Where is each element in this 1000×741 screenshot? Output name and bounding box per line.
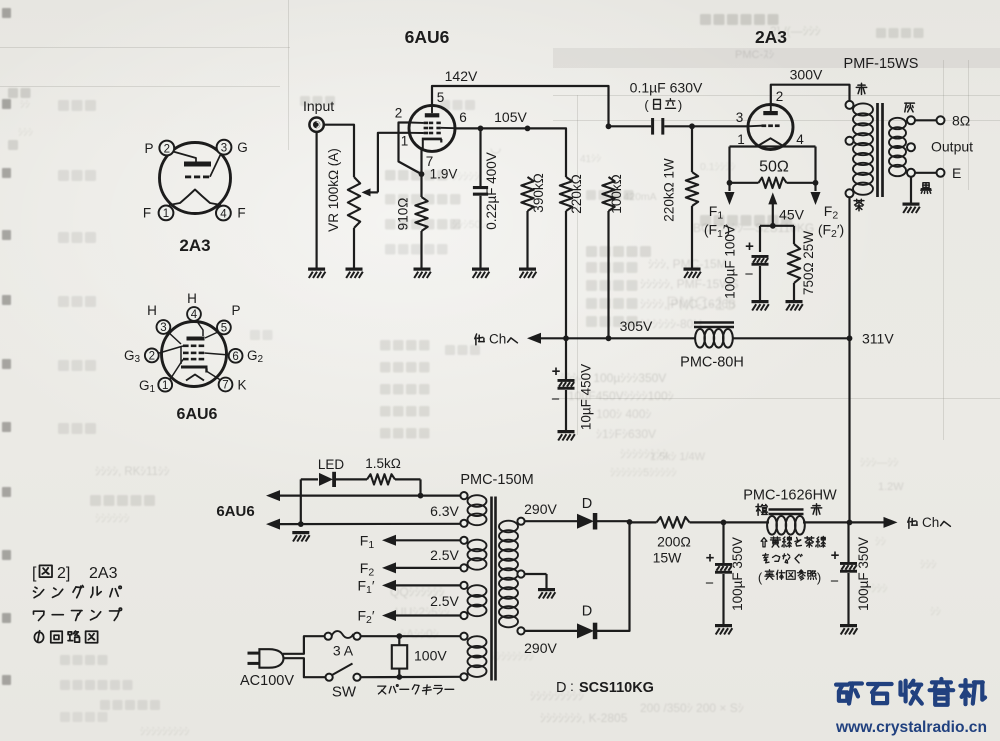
wire diode top to B+ (595, 520, 630, 522)
svg-text:+: + (552, 363, 561, 380)
svg-text:0.22µF 400V: 0.22µF 400V (484, 152, 499, 230)
label F1 (F1') (704, 203, 730, 240)
svg-text:6AU6: 6AU6 (216, 503, 254, 520)
svg-text:VR 100kΩ (A): VR 100kΩ (A) (326, 148, 341, 232)
svg-text:(: ( (644, 98, 649, 113)
svg-text:LED: LED (318, 457, 345, 472)
svg-text:100µF 100V: 100µF 100V (723, 225, 738, 299)
svg-text:D: D (582, 496, 592, 512)
wire diode bottom up to B+ (595, 522, 630, 631)
label 他Chへ (to other ch) (475, 332, 518, 347)
svg-text:3: 3 (160, 322, 166, 334)
svg-text:100µF 350V: 100µF 350V (856, 537, 871, 611)
label gray (hai) (905, 103, 915, 112)
label black (kuro) (921, 183, 931, 194)
wire coupling line right to 2A3 grid (664, 125, 748, 127)
primary terminal bottom (brown) (846, 189, 854, 197)
wire input to VR top (324, 125, 354, 177)
diode D (bottom) SCS110KG (577, 623, 597, 640)
svg-text::: : (570, 678, 574, 694)
svg-text:6: 6 (459, 110, 467, 125)
svg-text:[: [ (32, 565, 37, 582)
svg-text:50Ω: 50Ω (759, 159, 789, 176)
secondary terminal bottom (black) (907, 169, 915, 177)
wire input jack to ground (316, 132, 318, 268)
svg-text:2]: 2] (57, 565, 70, 582)
wire B+ to 200 ohm (630, 521, 657, 523)
wire E tap (915, 172, 937, 174)
svg-text:910Ω: 910Ω (396, 198, 411, 231)
wire secondary to ground (910, 177, 912, 203)
6AU6 socket base diagram (124, 291, 264, 395)
arrow to F2 (811, 183, 821, 205)
svg-text:SW: SW (332, 684, 357, 701)
label 他Chへ (B+ out) (908, 515, 951, 530)
svg-text:305V: 305V (620, 318, 653, 334)
svg-text:(F2′): (F2′) (818, 222, 844, 241)
svg-text:8Ω: 8Ω (952, 112, 970, 128)
svg-text:1: 1 (162, 380, 168, 392)
wire plug cords (283, 636, 326, 677)
svg-text:2.5V: 2.5V (430, 593, 459, 609)
svg-text:F1: F1 (360, 533, 375, 552)
wire 100k down to 305V line (607, 211, 609, 338)
svg-text:G: G (237, 140, 248, 155)
wire LED branch (301, 479, 421, 524)
svg-text:290V: 290V (524, 501, 557, 517)
tube V2 2A3 (power triode) (748, 105, 793, 150)
wire 6AU6 plate to 142V line (432, 86, 609, 126)
svg-text:−: − (551, 391, 560, 408)
capacitor 100uF 350V (second) (830, 522, 857, 624)
capacitor 100uF 100V (cathode bypass) (745, 238, 769, 300)
svg-text:1.9V: 1.9V (430, 167, 458, 182)
svg-text:D: D (582, 604, 592, 620)
secondary terminal top (gray) (907, 116, 915, 124)
svg-text:4: 4 (191, 309, 198, 321)
resistor 200 ohm 15W (657, 517, 690, 528)
svg-text:290V: 290V (524, 640, 557, 656)
svg-text:Output: Output (931, 138, 973, 154)
ground (speaker return) (903, 203, 920, 214)
node: hum pot left (727, 180, 733, 186)
node: cathode junction (419, 171, 425, 177)
wire filament left drop (728, 147, 730, 183)
input jack J1 (309, 118, 323, 132)
wire filament right drop (814, 147, 816, 183)
wire 290V top to diode (525, 520, 578, 522)
svg-text:15W: 15W (653, 550, 683, 566)
wire 6AU6 g3 pin2 to cathode (399, 123, 422, 175)
wire F2' (382, 610, 461, 621)
svg-text:AC100V: AC100V (240, 673, 294, 689)
svg-text:+: + (706, 550, 715, 567)
resistor 1.5k (LED dropper) (367, 474, 395, 484)
node: grid/220k1W junction (689, 123, 695, 129)
wire 6AU6 cathode down (420, 149, 422, 198)
wire switch to transformer (361, 676, 461, 679)
svg-text:0.1µF 630V: 0.1µF 630V (630, 80, 703, 96)
ground (10uF) (558, 430, 575, 441)
primary terminal top (red) (846, 101, 854, 109)
svg-text:142V: 142V (445, 68, 478, 84)
node: hum pot right (813, 180, 819, 186)
label red (aka) choke (811, 504, 821, 515)
transformer core (878, 103, 883, 197)
ground (750 ohm) (786, 300, 803, 311)
svg-text:F: F (143, 206, 151, 221)
svg-text:www.crystalradio.cn: www.crystalradio.cn (835, 719, 987, 736)
svg-text:E: E (952, 165, 961, 181)
svg-text:PMC-1626HW: PMC-1626HW (743, 488, 837, 504)
svg-text:2A3: 2A3 (179, 236, 210, 255)
ground (input jack) (308, 268, 325, 279)
resistor Rk 910 ohm (415, 197, 427, 231)
ground (220k 1W) (684, 268, 701, 279)
primary terminal mid (846, 137, 854, 145)
label F2 (F2') (818, 203, 844, 240)
node: first filter cap (721, 520, 727, 526)
svg-text:4: 4 (796, 132, 804, 147)
choke PMC-1626HW (767, 510, 805, 535)
wire 2A3 plate to 300V / OPT primary (771, 85, 850, 105)
LED indicator (319, 472, 336, 487)
svg-text:F: F (237, 206, 245, 221)
svg-text:D: D (556, 680, 566, 696)
svg-text:): ) (817, 570, 821, 585)
svg-text:K: K (237, 377, 246, 392)
winding 6.3V (460, 492, 486, 527)
svg-text:Input: Input (303, 98, 334, 114)
svg-text:2.5V: 2.5V (430, 547, 459, 563)
wire coupling line left (609, 125, 652, 127)
svg-text:Ch: Ch (489, 332, 506, 347)
capacitor 10uF 450V (551, 363, 574, 430)
svg-text:2: 2 (149, 351, 155, 363)
note: connect yellow and brown wires (758, 537, 825, 586)
potentiometer VR 100k (A) (348, 177, 360, 228)
svg-text:2: 2 (776, 89, 784, 104)
spark killer (surge absorber) (392, 636, 407, 677)
wire VR bottom to ground (353, 228, 355, 268)
wire 0.22uF to ground (479, 196, 481, 268)
svg-text:6.3V: 6.3V (430, 503, 459, 519)
node: 45V junction (770, 223, 776, 229)
resistor 390k (521, 177, 533, 211)
wire Rk to ground (420, 231, 422, 268)
svg-text:2: 2 (164, 143, 170, 155)
wire 220k down to 305V line (565, 211, 567, 338)
svg-text:+: + (745, 238, 754, 255)
wire to 0.22uF (479, 128, 481, 186)
node: 100k junction (606, 335, 612, 341)
2A3 socket base diagram (143, 140, 248, 221)
svg-text:3: 3 (221, 143, 227, 155)
svg-text:F1′: F1′ (357, 578, 374, 597)
node: screen/cap junction (478, 125, 484, 131)
choke PMC-80H (694, 323, 734, 348)
svg-text:F2: F2 (824, 203, 839, 222)
svg-text:): ) (678, 98, 682, 113)
svg-text:1: 1 (401, 134, 409, 149)
svg-text:P: P (144, 141, 153, 156)
svg-text:750Ω 25W: 750Ω 25W (801, 231, 816, 295)
ground (cathode) (414, 268, 431, 279)
svg-text:PMC-80H: PMC-80H (680, 355, 744, 371)
arrow heater bottom (266, 519, 461, 530)
svg-text:220kΩ 1W: 220kΩ 1W (662, 158, 677, 222)
svg-text:1: 1 (737, 132, 745, 147)
diode D (top) SCS110KG (577, 513, 597, 530)
wire F1 (382, 535, 461, 546)
wire fuse to transformer (361, 635, 461, 637)
label 200Ω 15W (653, 534, 691, 566)
wire 8 ohm tap (915, 119, 937, 121)
svg-text:1.5kΩ: 1.5kΩ (365, 456, 401, 471)
svg-text:3 A: 3 A (333, 643, 354, 659)
svg-text:3: 3 (736, 110, 744, 125)
capacitor 100uF 350V (first) (705, 522, 732, 624)
transformer T2 PMF-15WS primary (853, 103, 873, 194)
winding secondary 290V-0-290V (499, 518, 525, 635)
svg-text:G3: G3 (124, 348, 141, 365)
resistor 220k (560, 177, 572, 211)
svg-text:F2: F2 (360, 560, 375, 579)
label (Hitachi) (644, 98, 682, 113)
svg-text:100V: 100V (414, 648, 447, 664)
label red (aka) (856, 83, 866, 94)
terminal 8 ohm (937, 116, 945, 124)
wire choke to 311V node (733, 337, 850, 339)
tube V1 6AU6 (triode-connected pentode) (409, 105, 455, 151)
arrow to F1 (725, 183, 735, 205)
ground (first filter cap) (715, 624, 732, 635)
svg-text:H: H (187, 291, 197, 306)
node: junction 142V/coupling (606, 123, 612, 129)
fuse 3A (325, 631, 361, 640)
svg-text:−: − (830, 573, 839, 590)
wire 200 ohm to choke (690, 521, 770, 523)
label orange (dai-dai) (756, 504, 768, 515)
winding 2.5V (b) (460, 582, 486, 619)
arrow to other channel (B+) (884, 517, 898, 528)
figure caption [Fig2] 2A3 single power amp circuit (32, 565, 122, 643)
secondary terminal mid (907, 143, 915, 151)
svg-text:100µF 350V: 100µF 350V (730, 537, 745, 611)
hum balance pot 50 ohm (730, 178, 816, 188)
wire 305V node to 10uF (565, 338, 567, 379)
svg-text:H: H (147, 303, 157, 318)
svg-text:5: 5 (437, 90, 445, 105)
transformer core (PMC-150M) (492, 497, 496, 681)
svg-text:SCS110KG: SCS110KG (579, 680, 654, 696)
terminal E (937, 169, 945, 177)
wire 290V bottom to diode (525, 630, 578, 632)
winding 2.5V (a) (460, 537, 486, 572)
switch SW (326, 664, 361, 681)
node: spark killer top (396, 633, 402, 639)
node: 220k/10uF junction (563, 335, 569, 341)
transformer T2 secondary (889, 118, 906, 176)
svg-text:105V: 105V (494, 109, 527, 125)
node: 6.3V top junction (418, 493, 424, 499)
wire choke to 311V drop (803, 521, 884, 523)
node: spark killer bottom (396, 674, 402, 680)
label D : SCS110KG (556, 678, 654, 696)
svg-text:2: 2 (395, 106, 403, 121)
svg-text:5: 5 (221, 323, 227, 335)
svg-text:390kΩ: 390kΩ (531, 173, 546, 212)
svg-text:−: − (705, 575, 714, 592)
label spark killer (katakana) (378, 685, 454, 695)
svg-text:PMC-150M: PMC-150M (460, 472, 533, 488)
ground (center tap) (538, 588, 555, 599)
svg-text:200Ω: 200Ω (657, 534, 691, 550)
svg-text:+: + (831, 547, 840, 564)
arrow heater top (266, 490, 461, 501)
wire B+ from OPT brown down to 311V node (848, 197, 850, 522)
svg-text:6: 6 (232, 351, 238, 363)
node: rectifier output (627, 519, 633, 525)
svg-text:1: 1 (163, 208, 169, 220)
svg-text:7: 7 (222, 380, 228, 392)
arrow to other channel (305V) (527, 333, 695, 344)
svg-text:−: − (745, 266, 754, 283)
wire center tap to ground (525, 574, 547, 588)
wire F2 (382, 562, 461, 573)
svg-text:Ch: Ch (922, 515, 939, 530)
wire wiper to 6AU6 grid pin1 (378, 133, 410, 193)
svg-text:F2′: F2′ (357, 608, 374, 627)
resistor 100k (602, 177, 614, 211)
svg-text:6AU6: 6AU6 (405, 27, 450, 47)
resistor 750 ohm 25W (788, 244, 800, 300)
AC plug (248, 649, 284, 668)
ground (0.22uF) (472, 268, 489, 279)
ground (390k) (519, 268, 536, 279)
node: second filter cap / B+ (847, 520, 853, 526)
svg-text:10µF 450V: 10µF 450V (579, 364, 594, 430)
ground (second filter cap) (840, 624, 857, 635)
ground (100uF) (752, 300, 769, 311)
svg-text:300V: 300V (790, 67, 823, 83)
watermark crystalradio logo (836, 679, 985, 705)
svg-text:G2: G2 (247, 348, 264, 365)
svg-text:G1: G1 (139, 378, 156, 395)
label brown (cha) (854, 199, 864, 210)
wire 45V tee (760, 226, 794, 252)
wiper of 50 ohm pot (768, 192, 777, 225)
svg-text:2A3: 2A3 (755, 27, 787, 47)
svg-text:6AU6: 6AU6 (177, 406, 218, 423)
svg-text:4: 4 (220, 208, 227, 220)
ground (heater) (292, 531, 309, 542)
wire F1' (382, 580, 461, 591)
wire filament line under tube (730, 145, 816, 147)
svg-text:(: ( (758, 570, 763, 585)
resistor 220k 1W grid leak (686, 126, 698, 267)
winding primary 100V (460, 633, 486, 681)
svg-text:311V: 311V (862, 330, 894, 346)
node: LED branch left (298, 521, 304, 527)
svg-text:P: P (231, 303, 240, 318)
svg-text:F1: F1 (709, 203, 724, 222)
svg-text:100kΩ: 100kΩ (609, 174, 624, 213)
svg-text:PMF-15WS: PMF-15WS (844, 56, 919, 72)
node: screen/390k junction (525, 125, 531, 131)
VR wiper arrow (362, 188, 378, 196)
svg-text:45V: 45V (779, 207, 805, 223)
svg-text:220kΩ: 220kΩ (569, 174, 584, 213)
svg-text:2A3: 2A3 (89, 565, 118, 582)
node: 311V (847, 335, 853, 341)
wire 105V screen line (455, 128, 566, 177)
ground (VR) (346, 268, 363, 279)
capacitor 0.1uF 630V coupling (651, 118, 664, 135)
wire 390k to ground (526, 211, 528, 268)
capacitor 0.22uF 400V (473, 186, 488, 196)
